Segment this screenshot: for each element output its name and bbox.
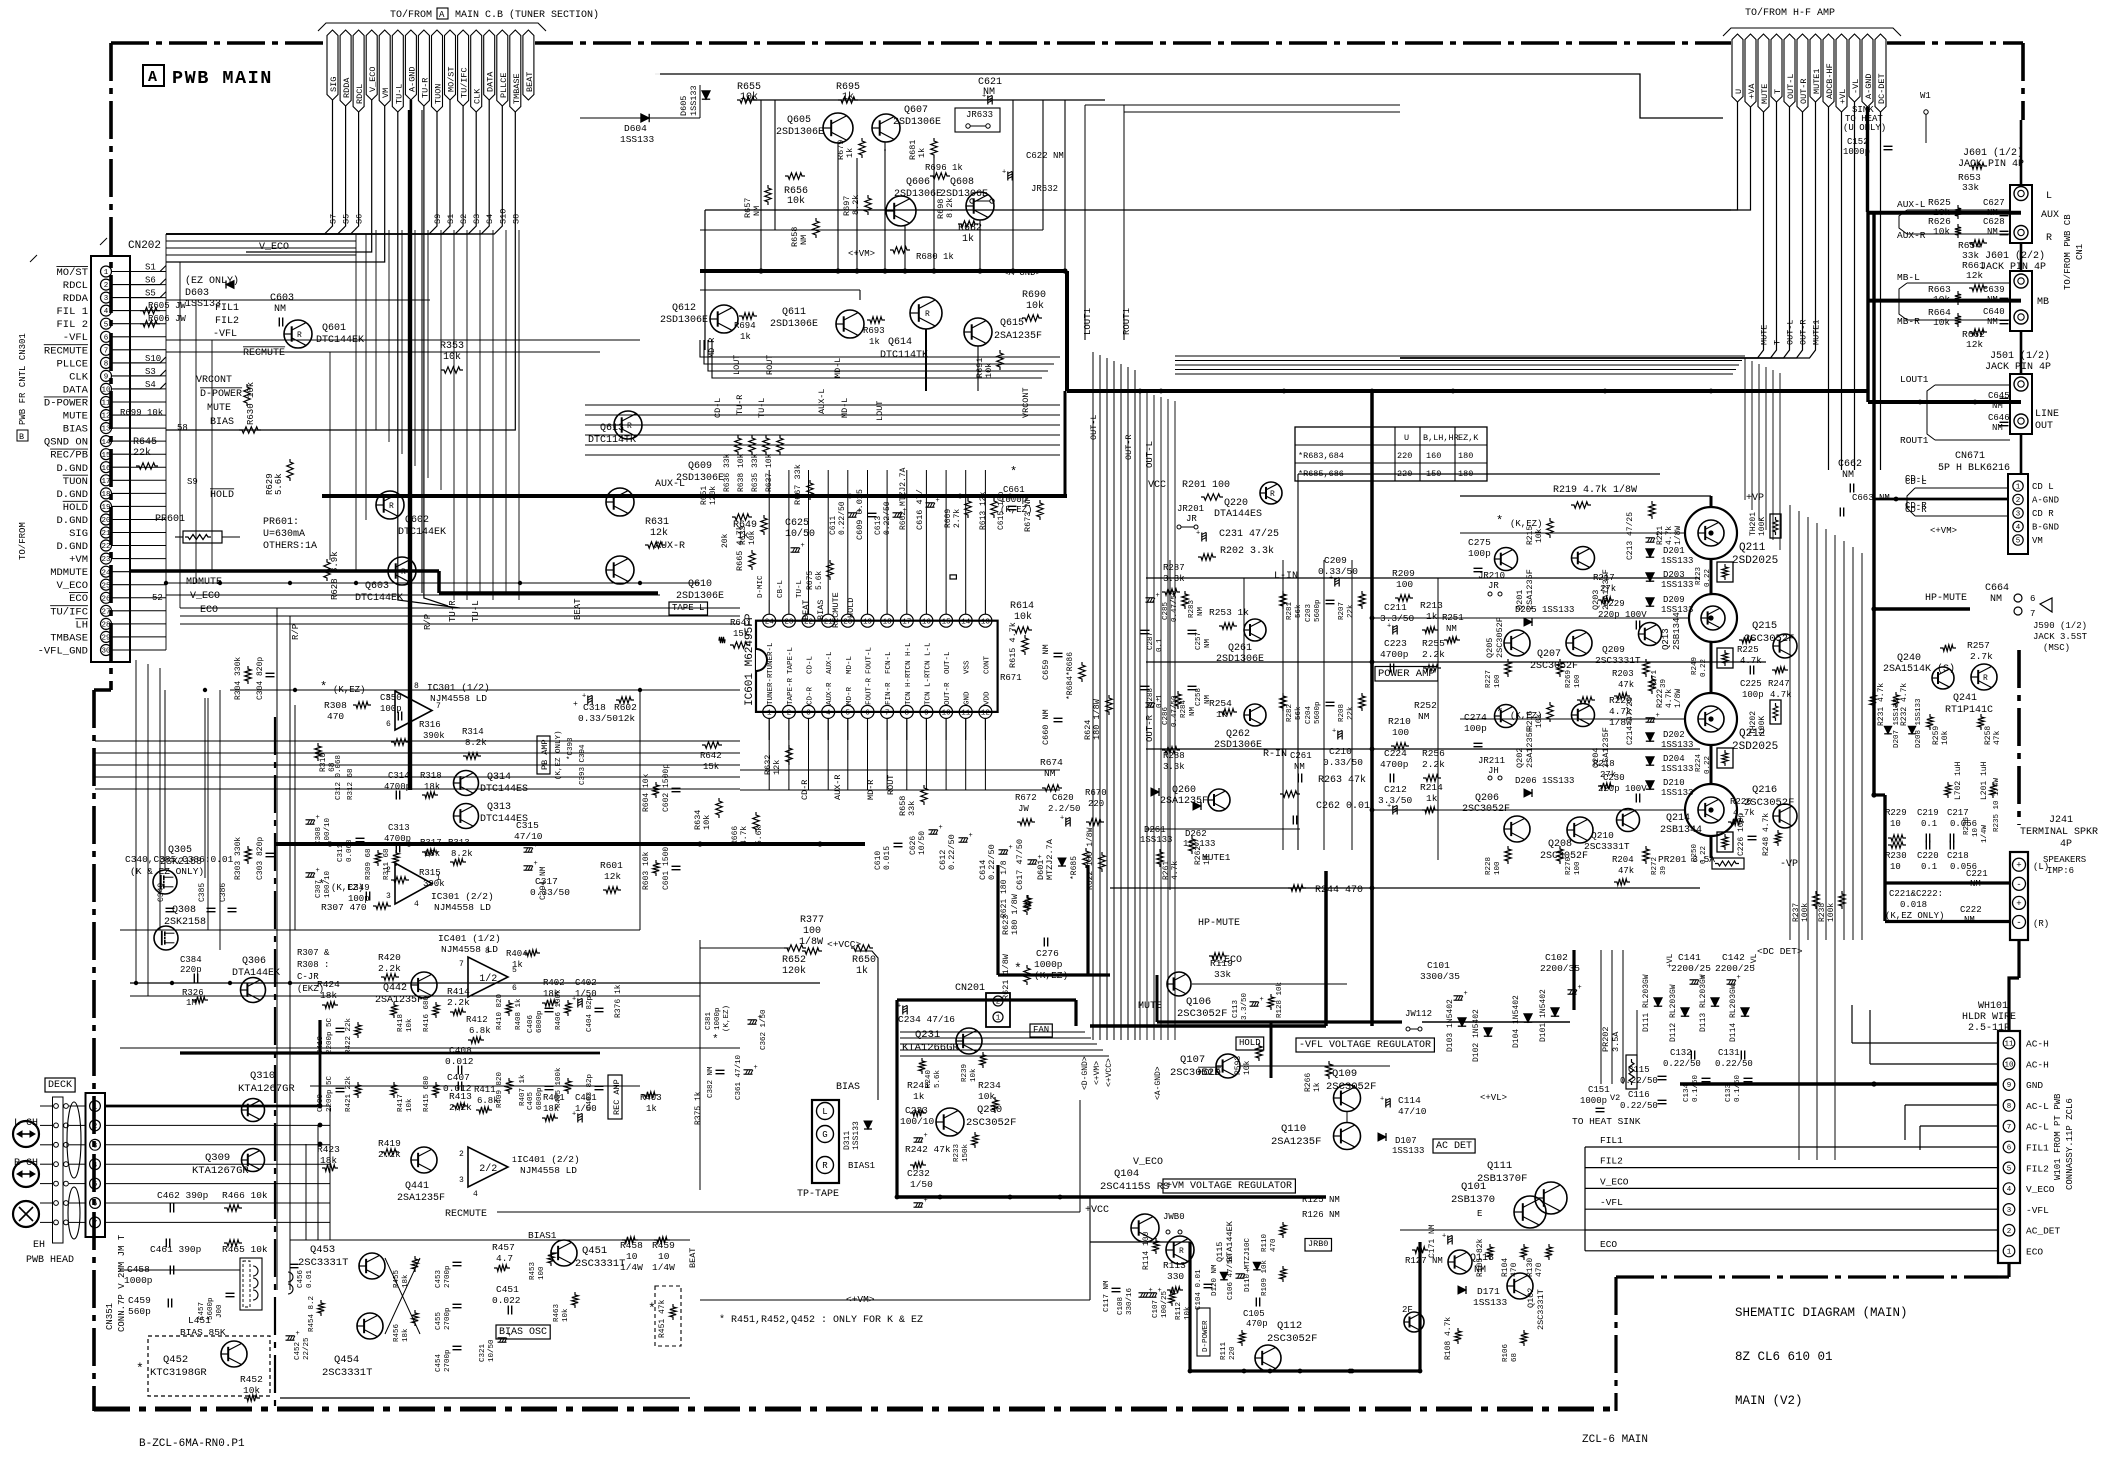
svg-text:R284: R284 <box>1180 699 1188 718</box>
svg-text:-: - <box>2016 918 2021 928</box>
svg-text:LOUT: LOUT <box>875 401 885 421</box>
svg-text:10: 10 <box>2004 1061 2014 1069</box>
svg-text:4: 4 <box>2016 524 2021 532</box>
svg-text:4.7: 4.7 <box>496 1253 513 1264</box>
svg-text:Q110: Q110 <box>1281 1123 1306 1135</box>
svg-text:C151: C151 <box>1588 1085 1610 1095</box>
svg-text:1/50: 1/50 <box>910 1179 933 1190</box>
svg-text:20k: 20k <box>721 533 730 548</box>
svg-text:10k: 10k <box>406 1018 414 1032</box>
svg-text:CN1: CN1 <box>2075 244 2085 260</box>
svg-text:<D-GND>: <D-GND> <box>1081 1056 1090 1090</box>
svg-text:R672: R672 <box>1015 793 1037 803</box>
svg-text:Q262: Q262 <box>1226 729 1250 740</box>
svg-text:MD-L: MD-L <box>840 398 850 418</box>
svg-text:0.012: 0.012 <box>445 1056 474 1067</box>
svg-text:MUTE1: MUTE1 <box>1812 68 1822 94</box>
svg-text:R671: R671 <box>1000 673 1022 683</box>
svg-text:R217: R217 <box>1593 573 1615 583</box>
svg-text:CLK: CLK <box>69 371 89 383</box>
svg-text:R694: R694 <box>734 321 756 331</box>
svg-text:R408 1k: R408 1k <box>515 998 523 1030</box>
svg-text:D-POWER: D-POWER <box>200 389 242 400</box>
svg-text:2SC3052F: 2SC3052F <box>1495 617 1505 658</box>
svg-text:R304 330k: R304 330k <box>234 657 243 700</box>
svg-text:+: + <box>1578 984 1582 992</box>
svg-text:RDDA: RDDA <box>63 293 89 305</box>
svg-text:R308: R308 <box>324 700 347 711</box>
svg-text:R615 4.7k: R615 4.7k <box>1008 622 1018 668</box>
svg-text:5: 5 <box>2016 538 2021 546</box>
svg-text:C610: C610 <box>874 851 883 870</box>
svg-text:TO HEAT SINK: TO HEAT SINK <box>1572 1116 1641 1127</box>
svg-text:R422 22k: R422 22k <box>345 1017 353 1054</box>
svg-text:MDMUTE: MDMUTE <box>50 567 88 579</box>
svg-text:R223: R223 <box>1695 566 1703 585</box>
svg-text:TU-L: TU-L <box>796 579 804 598</box>
svg-text:R/P: R/P <box>291 624 301 640</box>
svg-text:+: + <box>936 497 940 505</box>
svg-text:MO/ST: MO/ST <box>56 267 88 279</box>
svg-text:C220: C220 <box>1917 851 1939 861</box>
svg-text:R226: R226 <box>1730 797 1752 807</box>
svg-text:DTC144ES: DTC144ES <box>480 784 528 795</box>
svg-text:2SC3052F: 2SC3052F <box>1170 1067 1220 1079</box>
svg-text:U: U <box>1734 89 1744 94</box>
svg-text:R451 47k: R451 47k <box>658 1299 667 1338</box>
svg-text:JW: JW <box>1018 804 1029 814</box>
svg-text:C226 100p: C226 100p <box>1737 813 1746 856</box>
svg-text:C105: C105 <box>1243 1309 1265 1319</box>
svg-text:14: 14 <box>101 439 111 447</box>
svg-text:C108: C108 <box>1117 1297 1125 1315</box>
svg-text:OUT-R: OUT-R <box>1124 434 1134 460</box>
svg-text:AC-L: AC-L <box>2026 1101 2049 1112</box>
svg-text:10k: 10k <box>1535 528 1544 543</box>
svg-text:FIL1: FIL1 <box>1600 1135 1623 1146</box>
svg-text:RDCL: RDCL <box>63 280 88 292</box>
svg-text:MD-L: MD-L <box>846 655 854 674</box>
svg-text:2700p: 2700p <box>444 1349 452 1372</box>
svg-text:12k: 12k <box>650 527 668 539</box>
svg-text:RECMUTE: RECMUTE <box>44 345 88 357</box>
svg-text:JACK 3.5ST: JACK 3.5ST <box>2033 632 2088 642</box>
svg-text:*: * <box>136 1361 144 1376</box>
svg-text:Q453: Q453 <box>310 1244 335 1256</box>
svg-text:C104 0.01: C104 0.01 <box>1195 1269 1203 1310</box>
svg-text:0.015: 0.015 <box>883 846 892 870</box>
svg-text:CD-L: CD-L <box>1905 477 1927 487</box>
svg-text:+: + <box>1332 728 1336 736</box>
svg-text:10: 10 <box>1890 862 1901 872</box>
svg-text:2SC3052F: 2SC3052F <box>1326 1081 1376 1093</box>
svg-text:U=630mA: U=630mA <box>263 529 305 540</box>
svg-text:+: + <box>582 693 586 701</box>
svg-text:S7: S7 <box>329 214 339 224</box>
svg-text:10k: 10k <box>1933 317 1950 328</box>
svg-text:FOUT-R: FOUT-R <box>866 677 874 705</box>
svg-text:NM: NM <box>1474 1265 1486 1276</box>
svg-text:+: + <box>982 93 986 101</box>
svg-text:180: 180 <box>1458 451 1473 461</box>
svg-text:R210: R210 <box>1388 716 1411 727</box>
svg-text:4.7k: 4.7k <box>1171 861 1180 880</box>
svg-text:Q220: Q220 <box>1224 498 1248 509</box>
svg-text:Q452: Q452 <box>163 1354 188 1366</box>
svg-text:HOLD: HOLD <box>1239 1038 1261 1048</box>
svg-text:R402: R402 <box>543 978 565 988</box>
svg-text:D-MIC: D-MIC <box>757 575 765 598</box>
svg-text:FIL 2: FIL 2 <box>56 319 88 331</box>
svg-text:R699 10k: R699 10k <box>120 408 163 418</box>
svg-text:C209: C209 <box>1324 555 1347 566</box>
svg-text:V_ECO: V_ECO <box>368 66 378 92</box>
svg-text:R311 68: R311 68 <box>383 848 391 880</box>
svg-text:RDCL: RDCL <box>355 84 365 104</box>
svg-text:MUTE: MUTE <box>1760 84 1770 104</box>
svg-text:2SA1514K (S): 2SA1514K (S) <box>1883 663 1955 675</box>
svg-text:5: 5 <box>2007 1165 2012 1173</box>
svg-text:AUX-L: AUX-L <box>1897 199 1926 210</box>
svg-text:R665 4.7k: R665 4.7k <box>735 525 745 571</box>
svg-text:Q112: Q112 <box>1277 1320 1302 1332</box>
svg-text:+: + <box>801 542 805 550</box>
svg-text:NM: NM <box>1418 711 1430 722</box>
svg-text:R456: R456 <box>393 1323 401 1342</box>
svg-text:Q451: Q451 <box>582 1245 607 1257</box>
svg-text:1SS133: 1SS133 <box>689 85 699 116</box>
svg-text:1/2: 1/2 <box>479 973 497 985</box>
svg-text:<+VM>: <+VM> <box>1093 1061 1102 1085</box>
svg-text:6800p: 6800p <box>536 1010 544 1033</box>
svg-text:R693: R693 <box>863 326 885 336</box>
svg-text:EZ,K: EZ,K <box>1458 433 1479 443</box>
svg-text:*: * <box>318 878 325 892</box>
svg-text:JWB0: JWB0 <box>1163 1212 1185 1222</box>
svg-text:Q314: Q314 <box>487 772 511 783</box>
svg-text:1: 1 <box>93 1104 98 1112</box>
svg-text:CD-R: CD-R <box>807 686 815 705</box>
svg-text:AUX-L: AUX-L <box>655 479 685 490</box>
svg-text:A: A <box>148 69 157 86</box>
svg-text:47k: 47k <box>1993 730 2002 745</box>
svg-text:BIAS OSC: BIAS OSC <box>499 1327 547 1338</box>
svg-text:C318: C318 <box>583 702 606 713</box>
svg-text:+VL: +VL <box>1838 89 1848 104</box>
svg-text:1/4W: 1/4W <box>620 1262 643 1273</box>
svg-text:DATA: DATA <box>486 71 496 92</box>
svg-text:TUON: TUON <box>63 476 88 488</box>
svg-text:7: 7 <box>2030 609 2035 619</box>
svg-text:C646: C646 <box>1988 413 2010 423</box>
svg-text:BIAS1: BIAS1 <box>528 1230 557 1241</box>
svg-text:C-JR: C-JR <box>297 972 319 982</box>
svg-text:25: 25 <box>101 582 111 590</box>
svg-text:D.GND: D.GND <box>56 463 88 475</box>
svg-text:Q230: Q230 <box>977 1104 1002 1116</box>
svg-text:FIL 1: FIL 1 <box>56 306 88 318</box>
svg-text:C659 NM: C659 NM <box>1041 644 1051 680</box>
svg-text:180: 180 <box>1458 469 1473 479</box>
svg-text:D110 MTZJ10C: D110 MTZJ10C <box>1244 1237 1252 1292</box>
svg-text:0.1/50: 0.1/50 <box>1692 1074 1700 1102</box>
svg-text:4: 4 <box>93 1162 98 1170</box>
svg-text:R606 JW: R606 JW <box>148 314 186 324</box>
svg-text:24: 24 <box>101 569 111 577</box>
svg-text:R254: R254 <box>1209 698 1232 709</box>
svg-text:VCC: VCC <box>1148 480 1166 491</box>
svg-text:17: 17 <box>902 618 911 626</box>
svg-text:B-GND: B-GND <box>2032 523 2059 533</box>
svg-text:NM: NM <box>1992 401 2003 411</box>
svg-text:R203: R203 <box>1612 669 1634 679</box>
svg-text:Q607: Q607 <box>904 105 928 116</box>
svg-text:5.6k: 5.6k <box>815 571 824 590</box>
svg-text:B,LH,HR: B,LH,HR <box>1423 433 1459 443</box>
svg-text:PWB FR CNTL CN301: PWB FR CNTL CN301 <box>18 333 28 425</box>
svg-text:R: R <box>1270 490 1275 499</box>
svg-text:R628 3.9k: R628 3.9k <box>330 551 340 600</box>
svg-text:*C393: *C393 <box>567 737 575 760</box>
svg-text:NM: NM <box>1992 423 2003 433</box>
svg-text:R249: R249 <box>1691 657 1699 675</box>
svg-text:1/50: 1/50 <box>575 1104 597 1114</box>
svg-text:1/8W: 1/8W <box>1674 526 1683 545</box>
svg-text:Q308: Q308 <box>172 905 196 916</box>
svg-text:R377: R377 <box>800 915 824 926</box>
svg-text:7: 7 <box>459 960 464 969</box>
svg-text:C204: C204 <box>1305 705 1313 724</box>
svg-text:TU/IFC: TU/IFC <box>50 606 88 618</box>
svg-text:R417: R417 <box>397 1094 405 1112</box>
svg-text:R318: R318 <box>420 771 442 781</box>
svg-text:D111 RL203GW: D111 RL203GW <box>1642 974 1651 1032</box>
svg-text:1SS133: 1SS133 <box>1473 1297 1508 1308</box>
svg-text:ZCL-6 MAIN: ZCL-6 MAIN <box>1582 1434 1648 1446</box>
svg-text:0.01: 0.01 <box>306 1269 314 1288</box>
svg-text:C459: C459 <box>128 1295 151 1306</box>
svg-text:TCN L-L: TCN L-L <box>924 642 932 674</box>
svg-text:6: 6 <box>93 1201 98 1209</box>
svg-text:29: 29 <box>101 635 110 643</box>
svg-text:NM: NM <box>1842 470 1854 481</box>
svg-text:NM: NM <box>1446 624 1457 634</box>
svg-text:NJM4558 LD: NJM4558 LD <box>520 1165 577 1176</box>
svg-text:5.6k: 5.6k <box>934 1069 942 1088</box>
svg-text:Q261: Q261 <box>1228 643 1252 654</box>
svg-text:Q106: Q106 <box>1186 996 1211 1008</box>
svg-text:HOLD: HOLD <box>63 502 88 514</box>
svg-text:R466 10k: R466 10k <box>222 1190 268 1201</box>
svg-text:7: 7 <box>104 347 109 355</box>
svg-text:33k: 33k <box>1962 182 1979 193</box>
svg-text:TU-L: TU-L <box>757 398 767 418</box>
svg-text:3.3/50: 3.3/50 <box>1378 795 1413 806</box>
svg-text:TU-R: TU-R <box>735 395 745 415</box>
svg-text:ECO: ECO <box>1600 1239 1617 1250</box>
svg-text:PLLCE: PLLCE <box>56 358 88 370</box>
svg-text:C276: C276 <box>1036 948 1059 959</box>
svg-text:3: 3 <box>104 295 109 303</box>
svg-text:12: 12 <box>981 710 990 718</box>
svg-text:Q209: Q209 <box>1602 644 1625 655</box>
svg-text:OUT-L: OUT-L <box>1145 441 1155 468</box>
svg-text:TH201: TH201 <box>1749 512 1758 536</box>
svg-text:JR210: JR210 <box>1478 571 1505 581</box>
svg-text:1: 1 <box>996 1015 1001 1023</box>
svg-text:Q614: Q614 <box>888 337 912 348</box>
svg-text:R241: R241 <box>907 1080 930 1091</box>
svg-text:14: 14 <box>961 618 971 626</box>
svg-text:39: 39 <box>1660 679 1668 688</box>
svg-text:100p: 100p <box>1468 548 1491 559</box>
svg-text:CB-L: CB-L <box>777 579 785 598</box>
svg-text:4: 4 <box>414 900 419 909</box>
svg-text:R229: R229 <box>1885 808 1907 818</box>
svg-text:C402: C402 <box>575 978 597 988</box>
svg-text:FIL2: FIL2 <box>215 316 239 327</box>
svg-text:12k: 12k <box>618 713 635 724</box>
svg-text:3300/35: 3300/35 <box>1420 971 1460 982</box>
svg-text:1: 1 <box>2016 484 2021 492</box>
svg-text:R259: R259 <box>1932 726 1941 745</box>
svg-text:TP-TAPE: TP-TAPE <box>797 1189 839 1200</box>
svg-text:R690: R690 <box>1022 290 1046 301</box>
svg-text:TUON: TUON <box>434 84 444 104</box>
svg-text:R309 68: R309 68 <box>365 848 373 880</box>
svg-text:1SS133: 1SS133 <box>1140 835 1172 845</box>
svg-text:CD-L: CD-L <box>713 398 723 418</box>
svg-text:7: 7 <box>2007 1124 2012 1132</box>
svg-text:TU-L: TU-L <box>471 600 481 622</box>
svg-text:C203: C203 <box>1305 603 1313 622</box>
svg-text:E: E <box>1477 1209 1482 1219</box>
svg-text:C461 390p: C461 390p <box>150 1244 202 1255</box>
svg-text:+: + <box>1260 996 1264 1004</box>
svg-text:4P: 4P <box>2060 839 2072 850</box>
svg-text:100/10: 100/10 <box>324 817 332 845</box>
svg-text:1: 1 <box>436 874 441 883</box>
svg-text:C640: C640 <box>1983 307 2005 317</box>
svg-text:REC/PB: REC/PB <box>50 450 88 462</box>
svg-text:J241: J241 <box>2049 815 2073 826</box>
svg-text:0.33/50: 0.33/50 <box>530 887 570 898</box>
svg-text:R621 180 1/8: R621 180 1/8 <box>1000 860 1009 918</box>
svg-text:<+VCC>: <+VCC> <box>827 939 862 950</box>
svg-text:C131: C131 <box>1718 1048 1740 1058</box>
svg-text:C223: C223 <box>1384 638 1407 649</box>
svg-text:Q102: Q102 <box>1526 1288 1536 1308</box>
svg-text:(R): (R) <box>2033 919 2049 929</box>
svg-text:1: 1 <box>767 710 772 718</box>
svg-text:TUNER-L: TUNER-L <box>767 642 775 674</box>
svg-text:R641: R641 <box>730 618 752 628</box>
svg-text:100: 100 <box>803 926 821 937</box>
svg-text:HOLD: HOLD <box>846 598 856 618</box>
svg-text:Q205: Q205 <box>1485 638 1495 658</box>
svg-text:CONT: CONT <box>983 655 991 674</box>
svg-text:390k: 390k <box>423 731 445 741</box>
svg-text:Q606: Q606 <box>906 177 930 188</box>
svg-text:D120 NM: D120 NM <box>1211 1264 1219 1296</box>
svg-text:0.22: 0.22 <box>1700 659 1708 677</box>
svg-text:R307 470: R307 470 <box>321 902 367 913</box>
svg-text:PWB HEAD: PWB HEAD <box>26 1255 74 1266</box>
svg-text:AUX: AUX <box>2041 210 2059 221</box>
svg-text:1k: 1k <box>512 960 523 970</box>
svg-text:58: 58 <box>177 423 188 433</box>
svg-text:Q202: Q202 <box>1515 748 1525 768</box>
svg-text:C224: C224 <box>1384 748 1407 759</box>
svg-text:47k: 47k <box>1618 680 1634 690</box>
svg-text:C313: C313 <box>388 823 410 833</box>
svg-text:R613 12k: R613 12k <box>979 491 988 530</box>
svg-text:5600p: 5600p <box>1314 599 1322 622</box>
svg-text:BEAT: BEAT <box>801 600 811 620</box>
svg-text:11: 11 <box>961 710 971 718</box>
svg-text:C455: C455 <box>435 1311 443 1330</box>
svg-text:J590 (1/2): J590 (1/2) <box>2033 621 2087 631</box>
svg-text:17: 17 <box>101 478 110 486</box>
svg-text:3: 3 <box>459 1176 464 1185</box>
svg-text:33k: 33k <box>1214 969 1231 980</box>
svg-text:R401: R401 <box>543 1093 565 1103</box>
svg-text:2700p: 2700p <box>444 1307 452 1330</box>
svg-text:D208 1SS133: D208 1SS133 <box>1915 698 1923 748</box>
svg-text:+: + <box>1737 974 1741 982</box>
svg-text:2SD1306E: 2SD1306E <box>660 315 708 326</box>
svg-text:TUNER-R: TUNER-R <box>767 673 775 705</box>
svg-text:100: 100 <box>1494 861 1502 875</box>
svg-text:+: + <box>2016 899 2021 909</box>
svg-text:R: R <box>1179 1247 1184 1256</box>
svg-text:ECO: ECO <box>2026 1247 2043 1258</box>
svg-text:100: 100 <box>1574 674 1582 688</box>
svg-text:R642: R642 <box>700 751 722 761</box>
svg-text:VRCONT: VRCONT <box>196 375 232 386</box>
svg-text:100/10: 100/10 <box>900 1116 935 1127</box>
svg-text:C222: C222 <box>1960 905 1982 915</box>
svg-text:R114 100: R114 100 <box>1142 1231 1151 1270</box>
svg-text:W101 FROM PT PWB: W101 FROM PT PWB <box>2053 1093 2063 1180</box>
svg-text:R282: R282 <box>1286 704 1294 722</box>
svg-text:16: 16 <box>101 465 111 473</box>
svg-text:JW112: JW112 <box>1405 1009 1432 1019</box>
svg-text:160: 160 <box>1426 451 1441 461</box>
svg-text:4.7k: 4.7k <box>1665 526 1674 545</box>
svg-text:13: 13 <box>101 426 111 434</box>
svg-text:39: 39 <box>1660 866 1668 875</box>
svg-text:R244 470: R244 470 <box>1315 885 1363 896</box>
svg-text:2SA1235F: 2SA1235F <box>375 995 423 1006</box>
svg-text:R209: R209 <box>1392 568 1415 579</box>
svg-text:12k: 12k <box>604 871 621 882</box>
svg-text:-VP: -VP <box>1780 859 1798 870</box>
svg-text:*: * <box>320 680 327 694</box>
svg-text:CN202: CN202 <box>128 240 161 252</box>
svg-text:10: 10 <box>942 710 952 718</box>
svg-text:2SC3331T: 2SC3331T <box>298 1257 348 1269</box>
svg-text:VDD: VDD <box>983 691 991 705</box>
svg-text:C315: C315 <box>516 820 539 831</box>
svg-text:+: + <box>573 700 578 709</box>
svg-text:C620: C620 <box>1052 793 1074 803</box>
svg-text:VRCONT: VRCONT <box>1021 387 1031 418</box>
svg-text:-VL: -VL <box>1750 953 1759 968</box>
svg-text:8.2k: 8.2k <box>945 198 955 218</box>
svg-text:10k: 10k <box>406 1098 414 1112</box>
svg-text:PWB MAIN: PWB MAIN <box>172 68 273 89</box>
